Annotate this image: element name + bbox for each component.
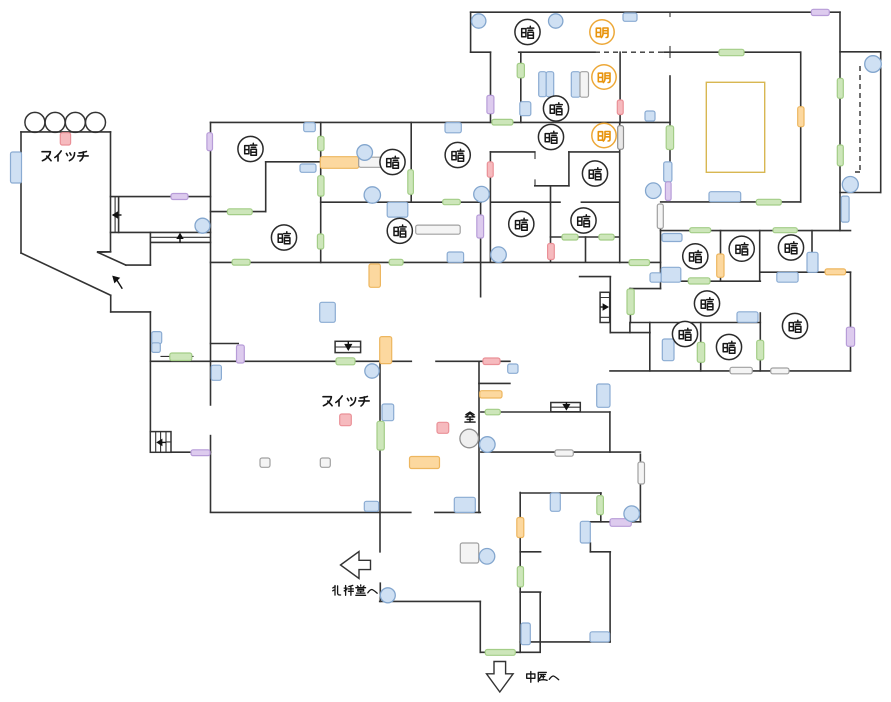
wall M610,370.9 H850.5 — [610, 370, 851, 372]
blue rect switch room — [320, 302, 336, 322]
wall M540.2,592.3 V651.8 — [539, 592, 541, 652]
staircase C box with left arrow — [150, 432, 171, 453]
circle label An (dark) — [683, 244, 708, 269]
pink square kettle room — [437, 422, 449, 433]
wall M110.5,196.6 H210.5 — [111, 196, 211, 198]
wall M210.5,435.6 V511.9 — [210, 436, 212, 512]
blue door below y522 — [580, 521, 590, 543]
label switch (top) — [42, 151, 88, 161]
blue rect below y272 — [777, 272, 798, 282]
green door on y230 B — [773, 228, 797, 233]
wall M550.5,185.8 V261.9 — [550, 186, 552, 262]
staircase A (vertical shaft with left arrow) — [112, 211, 122, 219]
purple door x480 — [477, 215, 484, 238]
blue big rect on y512 — [454, 497, 475, 512]
circle label An (dark) — [782, 313, 807, 338]
circle label An (dark) — [571, 208, 596, 233]
wall M579.6,276.6 H610.4 — [580, 276, 611, 278]
porch scallop arches — [25, 112, 106, 132]
wall M520.8,52.2 V122.4 — [520, 52, 522, 122]
wall M670,12.2 V16.5 — [669, 12, 671, 16]
blue door x812 — [807, 252, 818, 272]
diagonal outer wall of entrance wing — [21, 253, 111, 295]
wall M850.5,272.2 V370.9 — [850, 272, 852, 371]
blue circle item — [195, 218, 210, 233]
green door on y262 mid — [389, 259, 403, 265]
wall M470.6,52.2 H490.5 — [471, 51, 491, 53]
orange big bar exit — [410, 457, 440, 469]
blue circle item — [646, 183, 662, 199]
wall M380.3,583.2 V601.4 — [379, 583, 381, 601]
blue rect pair small — [650, 273, 661, 282]
blue rect x670 — [664, 162, 672, 182]
wall M670,149.5 V181.8 — [669, 150, 671, 182]
wall M518.7,52.2 H595 — [519, 51, 595, 53]
wall M380,361.3 V551.8 — [379, 361, 381, 552]
blue door below y493 — [550, 493, 560, 511]
green door on y412 — [485, 409, 500, 415]
wall M660.5,281.2 H760.3 — [661, 280, 761, 282]
green long door x380 — [377, 421, 384, 450]
wall M97.7,251.8 H110.5 — [98, 251, 111, 253]
dashed closet divider right corridor — [852, 66, 860, 172]
blue circle item — [474, 186, 490, 202]
diagonal inner wall — [98, 252, 126, 265]
wall M535,179.9 V185.8 — [534, 180, 536, 186]
wall M700.7,322.5 V370.9 — [700, 323, 702, 371]
wall M21,131.9 H110.5 — [21, 131, 111, 133]
wall M125.9,265.1 H150.4 — [126, 264, 150, 266]
wall M110.7,295.3 V311.9 — [110, 295, 112, 312]
wall M150.4,311.9 V431.6 — [149, 312, 151, 432]
kettle circle — [460, 429, 479, 448]
green door x320 B — [318, 176, 324, 196]
wall M434.9,512.4 H480.3 — [435, 511, 480, 513]
blue circle item — [624, 506, 640, 522]
circle label An (dark) — [778, 235, 803, 260]
wall M520.2,492.6 V652.3 — [519, 493, 521, 653]
label to-chapel — [333, 585, 378, 595]
wall M759.7,230.6 V281.2 — [759, 231, 761, 282]
circle label An (dark) — [582, 161, 607, 186]
orange door x720 — [717, 254, 724, 277]
wall M568.9,151.9 V185.8 — [568, 152, 570, 186]
blue circle item — [479, 549, 495, 565]
label to-courtyard — [527, 672, 559, 683]
wall M480.9,412 H609.9 — [481, 411, 610, 413]
purple door x850 — [846, 327, 854, 346]
wall M411.2,122.4 V202.2 — [410, 122, 412, 202]
wall M610.3,277 V332.6 — [609, 277, 611, 333]
wall M550.5,237 H619.7 — [551, 236, 620, 238]
blue circle item — [549, 14, 563, 28]
wall M660.5,228.1 V288.6 — [660, 228, 662, 289]
wall M161,356.4 H193 — [161, 355, 193, 357]
purple door on wall x210 — [207, 133, 213, 151]
orange door on y272 — [825, 269, 846, 275]
circle label An (dark) — [271, 225, 296, 250]
green door on y262 east — [629, 260, 649, 266]
wall M110.5,232.4 H210.5 — [111, 231, 211, 233]
circle label Mei (bright) — [592, 65, 616, 89]
staircase F vertical box east — [600, 292, 610, 322]
pink square switch room — [340, 414, 352, 426]
blue circle item — [491, 247, 507, 263]
wall M480.3,601.4 V652.3 — [479, 601, 481, 652]
pink door x620 top — [617, 100, 623, 115]
wall M115.1,197.3 V232.4 — [114, 197, 116, 232]
wall M840,12.2 V230.6 — [839, 12, 841, 230]
staircase B horizontal corridor arrow — [176, 233, 183, 243]
circle label Mei (bright) — [592, 123, 616, 147]
green door on y262 west — [232, 259, 250, 265]
green door switch room — [336, 358, 355, 365]
circle label An (dark) — [509, 211, 534, 236]
orange door x800 — [798, 107, 804, 127]
green door on y237 A — [562, 234, 578, 240]
wall M840,51.8 H880.7 — [840, 51, 881, 53]
blue rect stacked B — [152, 343, 161, 353]
white long bar room An8 — [416, 225, 461, 234]
white square A — [260, 458, 270, 467]
purple door lower corridor — [191, 450, 210, 456]
outline arrow to chapel (left) — [341, 552, 371, 579]
wall M812,230.6 V272.2 — [811, 231, 813, 273]
wall M265.7,161.8 H320.7 — [266, 161, 321, 163]
wall M470.6,12.2 V52.2 — [470, 12, 472, 52]
pink door on y361 east — [483, 358, 500, 365]
blue rect room An17 — [662, 339, 674, 361]
wall M535,151.9 V158.5 — [534, 152, 536, 159]
green door x411 — [408, 170, 414, 195]
wall M171,452.2 H210.5 — [171, 451, 211, 453]
staircase E box near kettle — [551, 402, 581, 412]
blue rect west of x610 — [597, 384, 610, 407]
wall M760.3,313 V370.9 — [759, 313, 761, 371]
blue rect hall NW — [211, 365, 221, 380]
wall M118.6,197.3 V232.4 — [118, 197, 120, 232]
wall M664,52.2 H800.7 — [664, 51, 801, 53]
wall M480.6,202.2 V296.7 — [480, 202, 482, 297]
wall M210.5,211.6 H265.7 — [211, 211, 266, 213]
wall M210.5,122.4 H670 — [211, 121, 671, 123]
green door x700 — [697, 342, 704, 362]
wall M265.7,161.8 V211.6 — [265, 162, 267, 212]
wall M590.4,551.8 H610.3 — [590, 551, 610, 553]
green door x600 — [597, 496, 604, 515]
wall M470.6,12.2 H840 — [471, 11, 840, 13]
pink door x550 — [548, 244, 555, 260]
wall M629.9,322.5 V332.6 — [629, 323, 631, 333]
blue rect east of x380 — [382, 404, 394, 421]
green door great hall south — [756, 199, 781, 205]
wall M660.7,201.9 H800.7 — [661, 201, 801, 203]
circle label An (dark) — [238, 136, 263, 161]
blue circle item — [472, 14, 486, 28]
wall M520.2,493 H601 — [520, 492, 601, 494]
wall M520.2,641.9 H610.1 — [520, 641, 610, 643]
wall M480.3,652.3 H540.2 — [480, 651, 540, 653]
gray door x620 — [618, 126, 624, 150]
green door on y122 C — [492, 119, 513, 125]
wall M520.2,592.1 H540.6 — [520, 591, 540, 593]
label kettle — [465, 412, 475, 422]
staircase D box in switch room — [335, 341, 361, 352]
wall M620.1,52.2 V122.4 — [619, 52, 621, 122]
wall M490.4,151.9 H534.8 — [490, 151, 534, 153]
green door room An6 — [227, 209, 252, 215]
circle label An (dark) — [543, 96, 568, 121]
circle label An (dark) — [672, 321, 697, 346]
green exit door courtyard — [485, 650, 515, 656]
wall M210.5,122.4 V404.9 — [210, 122, 212, 405]
staircase diagonal arrow entrance — [112, 276, 122, 289]
wall M660.5,230.6 H850.5 — [661, 230, 851, 232]
dashed partition top corridor — [595, 51, 664, 53]
wall M151.5,242.4 H210.5 — [152, 241, 211, 243]
gold carpet in great hall — [706, 82, 764, 172]
wall M760.3,272.2 H850.5 — [760, 271, 850, 273]
white door on y371 A — [730, 367, 752, 374]
wall M479,361.3 V512.4 — [478, 361, 480, 512]
circle label An (dark) — [380, 149, 405, 174]
blue rect great hall south — [709, 192, 741, 202]
white square B — [320, 458, 330, 467]
purple door on y361 — [237, 345, 245, 363]
wall M609.9,412 V452.1 — [609, 412, 611, 452]
green door x320 A — [318, 136, 324, 150]
wall M520.2,551.8 H540.6 — [520, 551, 540, 553]
wall M629.9,288.6 H660.5 — [630, 288, 661, 290]
wall M21,131.9 V253 — [20, 132, 22, 253]
orange big bar door — [320, 157, 358, 169]
green door x520 — [517, 567, 523, 587]
wall M490.5,52.2 V122.4 — [490, 52, 492, 122]
circle label An (dark) — [445, 142, 470, 167]
purple door on y522 — [610, 519, 631, 527]
green door great hall top — [719, 49, 744, 55]
wall M720.5,230.6 V281.2 — [720, 231, 722, 282]
green door x840 B — [837, 145, 843, 166]
blue circle item — [364, 187, 380, 203]
blue rect notch — [300, 164, 316, 172]
wall M600.8,493 V521.8 — [600, 493, 602, 522]
wall M436,361.3 H509.9 — [436, 360, 510, 362]
green door on y202 — [443, 199, 461, 204]
wall M585.5,237 V261.9 — [585, 237, 587, 262]
blue door on y262 — [447, 252, 463, 262]
orange bar stair room — [480, 391, 502, 398]
blue rect stacked A — [152, 332, 162, 344]
wall M880.7,51.8 V192.5 — [880, 52, 882, 193]
wall M150.5,361.3 H411.3 — [151, 360, 412, 362]
green door x520 top — [517, 63, 524, 77]
white box outside — [460, 543, 478, 563]
green long door x630 — [627, 289, 634, 315]
wall M619.7,122.4 V262.4 — [619, 122, 621, 262]
green door x320 C — [317, 234, 323, 249]
wall M491.5,202.2 H560 — [492, 201, 561, 203]
circle label An (dark) — [729, 236, 754, 261]
wall M840,192.5 H880.7 — [840, 192, 881, 194]
blue circle item — [480, 437, 496, 453]
blue door on y512 west — [364, 501, 378, 511]
blue tall door x840 — [841, 196, 849, 222]
purple door x490 top — [487, 95, 494, 113]
wall M568.9,151.9 H619.7 — [569, 151, 620, 153]
pink switch box on porch — [60, 133, 70, 145]
wall M320.7,202.2 H481 — [321, 201, 481, 203]
green door on y230 A — [690, 228, 711, 233]
green door on y237 B — [599, 234, 614, 240]
blue rect corridor x645 — [645, 111, 655, 121]
white door on y371 B — [771, 368, 789, 374]
blue door on y122 B — [445, 123, 461, 133]
circle label An (dark) — [694, 291, 719, 316]
green door x840 A — [837, 78, 843, 98]
blue door x520 south — [521, 623, 530, 645]
blue door entrance west wall — [11, 152, 22, 183]
wall M534.8,185.8 H568.9 — [535, 185, 569, 187]
circle label An (dark) — [515, 19, 540, 44]
wall M490.4,151.9 V262 — [489, 152, 491, 262]
wall M590.4,543.1 V551.8 — [589, 543, 591, 552]
wall M630.4,322.5 H760.3 — [630, 322, 760, 324]
blue circle item — [842, 177, 858, 193]
bed white 2b — [580, 72, 589, 98]
blue circle item — [357, 145, 373, 161]
orange big door vert A — [380, 337, 392, 364]
wall M478.9,383.4 H509.9 — [479, 382, 510, 384]
green door on y281 — [688, 278, 710, 284]
circle label An (dark) — [387, 218, 412, 243]
wall M210.5,512.4 H410.8 — [211, 511, 411, 513]
blue door on y122 A — [304, 123, 316, 132]
wall M151.5,237.3 H210.5 — [152, 236, 211, 238]
wall M590,521.8 H640.6 — [590, 521, 641, 523]
blue rect pair large — [661, 267, 681, 282]
wall M110.5,131.9 V251.5 — [110, 132, 112, 252]
blue rect on y322 — [737, 312, 758, 323]
blue rect stair room — [508, 364, 518, 373]
blue rect x520 — [520, 102, 531, 116]
circle label Mei (bright) — [590, 20, 614, 44]
wall M610.3,332.6 H650 — [610, 332, 650, 334]
wall M581.4,202.2 H619.7 — [581, 201, 619, 203]
white door x660 — [657, 204, 663, 229]
bed blue 2a — [571, 72, 580, 98]
wall M670,76 V125.8 — [669, 76, 671, 126]
blue rect kitchen — [590, 632, 610, 642]
wall M630.4,288.6 V322.5 — [629, 289, 631, 323]
circle label An (dark) — [716, 334, 741, 359]
blue door room An12 top — [662, 234, 682, 242]
wall M649.8,322.5 V370.9 — [649, 323, 651, 371]
outline arrow to courtyard (down) — [487, 662, 514, 693]
white door on y452 — [555, 450, 573, 456]
blue circle item — [865, 56, 882, 73]
white door x640 — [638, 462, 645, 484]
orange big door vert B — [369, 264, 380, 287]
white bar door — [359, 157, 382, 167]
blue door top wall — [623, 13, 637, 21]
purple door x670 — [665, 182, 671, 201]
bed blue 1a — [539, 72, 547, 97]
wall M210.5,262.4 H660.5 — [211, 261, 661, 263]
wall M640.4,454.2 V521.8 — [639, 454, 641, 522]
blue circle item — [380, 588, 395, 603]
blue circle item — [365, 364, 379, 378]
blue big rect room An8 — [387, 202, 408, 217]
green door corridor south — [170, 353, 192, 361]
wall M610.1,551.8 V641.9 — [609, 552, 611, 642]
wall M379.7,601.4 H480.3 — [380, 600, 481, 602]
wall M320.7,122.4 V262.4 — [320, 122, 322, 262]
orange door x520 — [517, 518, 524, 538]
circle label An (dark) — [538, 124, 563, 149]
wall M150.4,232.4 V265.1 — [149, 232, 151, 265]
wall M210.5,343.5 H238.2 — [211, 343, 239, 345]
wall M670,46.5 V57.5 — [669, 47, 671, 58]
pink door x490 — [487, 162, 493, 177]
green door x670 — [666, 126, 673, 150]
wall M480.9,452.1 H640.4 — [481, 451, 641, 453]
wall M110.7,311.9 H150.4 — [111, 311, 151, 313]
purple door top right — [811, 9, 829, 15]
bed blue 1b — [546, 72, 554, 97]
wall M800.7,52.2 V201.9 — [800, 52, 802, 202]
purple door corridor — [171, 194, 188, 200]
label switch (hall) — [323, 396, 369, 406]
green door x760 — [757, 340, 764, 360]
